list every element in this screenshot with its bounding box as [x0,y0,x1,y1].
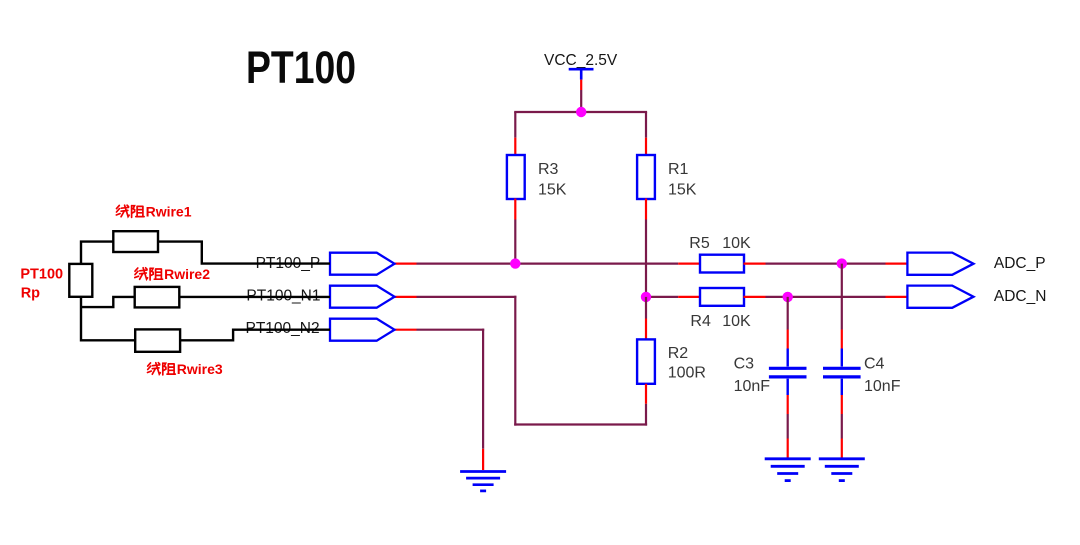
label 线阻Rwire2 [135,266,210,282]
svg-text:10K: 10K [722,313,751,330]
resistor R4 [700,288,744,306]
wire Rwire3 to PT100_N2 [180,330,330,341]
wire R2 bottom [645,404,647,426]
wire N2 vertical [482,329,484,449]
ground GND2 [765,459,811,481]
wire R3 bottom [514,220,516,264]
wire Rwire1 to PT100_P [158,242,330,264]
wire Rwire2 to PT100_N1 [179,296,330,298]
pin C4 pin1 [841,330,843,367]
label 线阻Rwire3 [148,361,223,377]
pin ADC_P port stub [886,263,908,265]
svg-text:Rwire1: Rwire1 [146,204,192,220]
wire net PT100_P horizontal [417,263,679,265]
resistor R3 [507,155,525,199]
wire R5 to ADC_P [766,263,886,265]
junction node PT100_P / R3 [510,258,520,268]
wire R1 bottom to ADC_N node [645,220,647,297]
ground GND1 [460,472,506,491]
resistor R1 [637,155,655,199]
wire C3 top [787,297,789,330]
port ADC_P [907,253,973,275]
pin ADC_N port stub [886,296,908,298]
power symbol VCC bar [569,69,594,79]
pin R5 pin2 [744,263,766,265]
wire top horizontal [514,111,647,113]
svg-text:100R: 100R [668,365,706,382]
capacitor C3 [769,368,807,377]
svg-text:R2: R2 [668,345,689,362]
wire N1 vertical [514,296,516,426]
resistor Rwire3 [135,329,180,351]
resistor Rwire2 [135,287,180,308]
pin PT100_P port stub [395,263,417,265]
wire R2 top [645,297,647,319]
svg-text:R1: R1 [668,161,689,178]
pin R2 pin2 [645,384,647,404]
junction node ADC_N / R1 R2 R4 [641,292,651,302]
pin stub VCC red [580,80,582,90]
pin C3 pin1 [787,330,789,367]
pin PT100_N2 port stub [395,329,417,331]
label C3 10nF [734,356,771,396]
svg-text:Rwire3: Rwire3 [177,361,223,377]
wire VCC vertical [580,90,582,112]
wire N1 horizontal [417,296,517,298]
svg-text:VCC_2.5V: VCC_2.5V [544,52,618,69]
ground GND3 [819,459,865,481]
resistor R2 [637,339,655,383]
port PT100_P [330,253,395,275]
pin R1 pin1 [645,138,647,156]
svg-text:C4: C4 [864,356,885,373]
label PT100 Rp [20,267,63,302]
wire R3 top [514,112,516,138]
junction VCC node [576,107,586,117]
svg-text:10K: 10K [722,235,751,252]
wire N1 bottom horizontal [514,423,647,425]
svg-text:R5: R5 [689,235,710,252]
svg-text:R4: R4 [690,313,711,330]
wire C4 top [841,264,843,330]
pin GND2 stub [787,439,789,459]
port PT100_N2 [330,319,395,341]
pin PT100_N1 port stub [395,296,417,298]
svg-text:ADC_P: ADC_P [994,255,1046,272]
label C4 10nF [864,356,901,396]
pin GND1 stub [482,449,484,470]
pin R3 pin2 [514,199,516,220]
svg-text:PT100: PT100 [20,267,63,283]
junction node ADC_P / C4 [837,258,847,268]
pin C4 pin2 [841,379,843,414]
wire N2 horizontal [417,329,485,331]
resistor R5 [700,255,744,273]
svg-text:R3: R3 [538,161,559,178]
svg-text:Rwire2: Rwire2 [164,266,210,282]
pin R3 pin1 [514,138,516,156]
resistor Rp PT100 [69,264,92,297]
svg-text:10nF: 10nF [864,378,901,395]
svg-text:15K: 15K [668,182,697,199]
svg-text:C3: C3 [734,356,755,373]
svg-text:10nF: 10nF [734,378,771,395]
pin R1 pin2 [645,199,647,220]
pin R5 pin1 [678,263,700,265]
wire Rp top to Rwire1 [81,242,113,264]
svg-text:15K: 15K [538,182,567,199]
wire Rp bottom to Rwire3 [81,297,135,341]
label 线阻Rwire1 [116,204,191,220]
port ADC_N [907,286,973,308]
wire C4 to ground [841,414,843,439]
pin GND3 stub [841,439,843,459]
wire ADC_N horizontal [646,296,678,298]
port PT100_N1 [330,286,395,308]
svg-text:Rp: Rp [21,286,40,302]
resistor Rwire1 [113,231,158,252]
capacitor C4 [823,368,861,377]
wire R1 top [645,112,647,138]
pin C3 pin2 [787,379,789,414]
pin R4 pin1 [678,296,700,298]
svg-text:ADC_N: ADC_N [994,288,1047,305]
svg-text:PT100: PT100 [246,42,356,93]
pin R4 pin2 [744,296,766,298]
wire C3 to ground [787,414,789,439]
junction node ADC_N / C3 [783,292,793,302]
wire R4 to ADC_N [766,296,886,298]
pin R2 pin1 [645,319,647,340]
wire Rp branch to Rwire2 [81,297,135,307]
